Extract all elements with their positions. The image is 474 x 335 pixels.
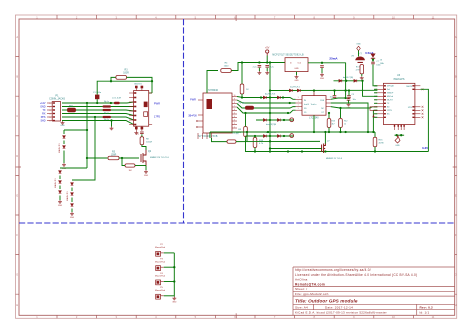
U1 filled block bbox=[144, 102, 148, 108]
wire to U3 pin bbox=[363, 81, 378, 97]
svg-text:10u: 10u bbox=[136, 134, 140, 136]
U3 tied pins bracket bbox=[370, 107, 377, 111]
resistor R18 4.7k bbox=[253, 138, 257, 148]
transistor Q1 MMBF170 bbox=[322, 144, 326, 154]
wire Q1 gate long bbox=[270, 148, 322, 150]
svg-text:10k0: 10k0 bbox=[224, 65, 230, 67]
wire vertical x345 upper bbox=[345, 63, 347, 99]
svg-text:1k: 1k bbox=[344, 123, 346, 125]
svg-text:Out: Out bbox=[297, 62, 301, 65]
svg-text:GND: GND bbox=[294, 80, 299, 82]
svg-text:5D: 5D bbox=[304, 112, 307, 114]
wire R6 right bbox=[135, 165, 146, 167]
svg-text:Q2: Q2 bbox=[148, 151, 152, 153]
wire R8 to Q2 drain bbox=[142, 145, 146, 150]
svg-text:J3: J3 bbox=[380, 60, 383, 62]
wire U4 p2 to rail bbox=[331, 103, 368, 132]
wire R13 dn bbox=[328, 128, 330, 133]
wire chainA link bbox=[64, 129, 87, 131]
junction bbox=[96, 102, 98, 104]
wire chainA low bbox=[63, 151, 65, 164]
svg-text:2.2u: 2.2u bbox=[270, 66, 274, 68]
svg-text:bav99-7L5: bav99-7L5 bbox=[265, 94, 276, 96]
svg-text:P5: P5 bbox=[160, 287, 163, 289]
junction bbox=[344, 89, 346, 91]
junction bbox=[173, 266, 175, 268]
capacitor C1 bbox=[95, 95, 99, 100]
wire row106 left bbox=[62, 106, 103, 108]
svg-text:PWR: PWR bbox=[190, 99, 196, 102]
svg-text:3B-/TX: 3B-/TX bbox=[387, 100, 394, 102]
diode D20 BAV99 bbox=[339, 79, 342, 82]
wire U3 bottom tie bbox=[395, 134, 405, 136]
U2 filled block bbox=[207, 99, 213, 109]
svg-text:R15: R15 bbox=[379, 140, 384, 142]
junction bbox=[289, 102, 291, 104]
IC U4 LTC1540 bbox=[302, 96, 326, 116]
svg-text:100uH: 100uH bbox=[146, 142, 153, 144]
wire chainB low bbox=[59, 196, 61, 201]
svg-text:NC: NC bbox=[321, 108, 324, 110]
svg-text:U3: U3 bbox=[397, 74, 401, 77]
svg-text:Date: 2017-12-14: Date: 2017-12-14 bbox=[325, 305, 353, 309]
wire rail y90 bbox=[270, 89, 377, 91]
svg-text:MCP170LT-3002E/TO92-LB: MCP170LT-3002E/TO92-LB bbox=[272, 54, 304, 56]
svg-text:GND: GND bbox=[294, 68, 299, 70]
wire U3 left stub bbox=[374, 99, 377, 101]
junction bbox=[269, 119, 271, 121]
resistor R5 100R bbox=[108, 156, 119, 160]
ferrite bead FB1 bbox=[67, 108, 76, 112]
wire U3 left stub bbox=[374, 116, 377, 118]
junction bbox=[344, 131, 346, 133]
ground chain A bbox=[62, 163, 66, 166]
svg-text:GND: GND bbox=[70, 217, 75, 219]
svg-text:L4 1.5uH: L4 1.5uH bbox=[112, 98, 121, 100]
junction bbox=[396, 134, 398, 136]
svg-text:GND: GND bbox=[172, 302, 177, 304]
wire flag to PTC bbox=[358, 51, 360, 57]
wire U4 bottom pin to rail bbox=[313, 115, 315, 132]
wire R5 to Q2 gate bbox=[119, 157, 139, 159]
ground mountpads bbox=[172, 297, 176, 300]
junction bbox=[372, 131, 374, 133]
diode D18 BAV99 bbox=[289, 89, 292, 92]
wire row117 left bbox=[62, 116, 103, 118]
wire F1 to U4 bbox=[254, 107, 296, 108]
diode D5 BAV99 bbox=[277, 96, 280, 99]
svg-text:MHCN: MHCN bbox=[406, 86, 412, 88]
svg-text:17P5: 17P5 bbox=[154, 114, 161, 118]
svg-text:1/5B: 1/5B bbox=[320, 100, 325, 102]
mount pad P3 bbox=[156, 266, 161, 271]
wire long rail y132 bbox=[210, 131, 375, 133]
resistor R8 10k0 bbox=[244, 127, 248, 137]
wire row y103 bbox=[237, 100, 296, 103]
ground C13 bbox=[265, 71, 269, 74]
junction bbox=[266, 61, 268, 63]
junction bbox=[321, 62, 323, 64]
svg-text:In: In bbox=[290, 63, 293, 65]
junction bbox=[258, 61, 260, 63]
wire U2 to R4 bbox=[207, 71, 218, 94]
testpoint TP1 bbox=[290, 118, 294, 122]
diode D21 BAV99 bbox=[354, 79, 357, 82]
fuse F2 bar bbox=[358, 62, 363, 63]
wire C1 up to y81 rail bbox=[97, 81, 152, 94]
junction bbox=[313, 131, 315, 133]
winding bar T1a bbox=[103, 105, 112, 107]
junction bbox=[86, 157, 88, 159]
svg-text:GND: GND bbox=[144, 175, 149, 177]
wire C14 dn bbox=[321, 68, 323, 73]
junction bbox=[361, 80, 363, 82]
svg-text:Inst.B: Inst.B bbox=[304, 103, 310, 106]
wire jog up bbox=[246, 132, 248, 142]
wire reg gnd bbox=[296, 72, 298, 75]
svg-text:1/PG: 1/PG bbox=[408, 107, 413, 109]
svg-text:MA4N-7L5: MA4N-7L5 bbox=[66, 190, 69, 200]
junction bbox=[301, 150, 303, 152]
wire U3 left stub bbox=[374, 106, 377, 108]
diode D19 BAV99 bbox=[297, 89, 300, 92]
wire R9 right long bbox=[236, 140, 320, 142]
svg-text:MA4N-7L5: MA4N-7L5 bbox=[54, 177, 57, 187]
junction bbox=[110, 80, 112, 82]
junction bbox=[339, 107, 341, 109]
svg-text:CONN_JACK6: CONN_JACK6 bbox=[49, 98, 65, 101]
svg-text:F1 (A): F1 (A) bbox=[233, 132, 239, 135]
ground Q2 bbox=[144, 170, 148, 173]
wire row110 mid bbox=[76, 109, 103, 111]
svg-text:MountPad: MountPad bbox=[155, 275, 166, 278]
junction bbox=[400, 134, 402, 136]
junction bbox=[328, 131, 330, 133]
svg-text:C?: C? bbox=[376, 61, 378, 63]
svg-text:bav99(?)B: bav99(?)B bbox=[266, 124, 277, 126]
capacitor C16 100n bbox=[371, 62, 375, 64]
junction bbox=[269, 147, 271, 149]
svg-text:4.7k: 4.7k bbox=[259, 143, 264, 145]
svg-text:MountPad: MountPad bbox=[155, 289, 166, 292]
svg-text:1M: 1M bbox=[128, 170, 131, 172]
IC U1 DC-DC module bbox=[134, 91, 149, 127]
svg-text:B: B bbox=[16, 75, 18, 79]
svg-text:R4: R4 bbox=[225, 63, 229, 65]
svg-text:4k7: 4k7 bbox=[332, 123, 335, 125]
ground R11 bbox=[360, 76, 364, 79]
winding bar T1c bbox=[103, 116, 112, 118]
wire U4 out bbox=[331, 98, 346, 99]
junction bbox=[269, 89, 271, 91]
svg-text:SD: SD bbox=[387, 107, 390, 109]
ground chain B bbox=[58, 200, 62, 203]
diode D17 bbox=[277, 135, 280, 138]
capacitor C7 10n bbox=[347, 99, 351, 101]
svg-text:E: E bbox=[16, 193, 18, 197]
transistor Q2 MMBF170 bbox=[141, 150, 146, 166]
wire R4 to regulator +5 rail bbox=[232, 63, 286, 71]
svg-text:Title: Outdoor GPS module: Title: Outdoor GPS module bbox=[295, 298, 358, 303]
svg-text:TX: TX bbox=[387, 103, 390, 105]
IC U5 MCP1700 regulator bbox=[285, 58, 308, 72]
wire C7 dn bbox=[348, 100, 350, 102]
svg-text:4.7M: 4.7M bbox=[356, 70, 361, 72]
capacitor C10 10n bbox=[333, 96, 337, 98]
junction bbox=[246, 131, 248, 133]
blue dashed divider horizontal bbox=[19, 222, 455, 224]
resistor R13 4k7 bbox=[327, 119, 331, 128]
junction bbox=[324, 131, 326, 133]
junction bbox=[313, 89, 315, 91]
ground C14 bbox=[320, 73, 324, 76]
wire P5 to gnd rail bbox=[164, 295, 175, 297]
fuse F1 bbox=[245, 106, 254, 110]
wire stub U1 right1 bbox=[149, 92, 152, 94]
svg-text:25mA: 25mA bbox=[329, 57, 338, 61]
U3 pin mark bbox=[373, 116, 375, 118]
svg-text:GND: GND bbox=[356, 44, 361, 46]
svg-text:3rd: 3rd bbox=[387, 88, 390, 91]
svg-text:P4: P4 bbox=[160, 273, 163, 275]
junction bbox=[173, 280, 175, 282]
svg-text:A: A bbox=[16, 35, 18, 39]
wire row110 to FB1 bbox=[62, 109, 67, 111]
junction bbox=[344, 97, 346, 99]
resistor R7 1K bbox=[240, 84, 244, 94]
diode D16 bbox=[263, 135, 266, 138]
svg-text:G: G bbox=[455, 273, 457, 277]
svg-text:Np Ls: Np Ls bbox=[104, 119, 109, 121]
wire U4 p3 to U3 bbox=[331, 107, 378, 108]
svg-text:bav99-7L5: bav99-7L5 bbox=[290, 87, 301, 89]
junction bbox=[267, 131, 269, 133]
svg-text:Fu 1A: Fu 1A bbox=[239, 102, 245, 105]
svg-text:NC: NC bbox=[387, 114, 390, 116]
wire P3 to gnd rail bbox=[164, 266, 175, 268]
junction bbox=[94, 116, 96, 118]
svg-text:RemoteQTH.com: RemoteQTH.com bbox=[295, 282, 325, 286]
svg-text:R12: R12 bbox=[344, 121, 347, 123]
inductor L4 bbox=[114, 102, 120, 104]
IC U2 SY65040 DC-DC bbox=[203, 93, 232, 133]
resistor R12 1k bbox=[339, 119, 343, 128]
wire row y97 U2 to U4 bbox=[237, 97, 296, 100]
wire vertical x95 to chain C bbox=[72, 117, 95, 180]
svg-text:SY65040 V30B: SY65040 V30B bbox=[198, 136, 217, 138]
wire +5V port down bbox=[266, 56, 268, 63]
wire R7 dn bbox=[241, 94, 243, 98]
svg-text:R8: R8 bbox=[238, 129, 242, 131]
svg-text:1: 1 bbox=[298, 97, 299, 99]
junction bbox=[339, 131, 341, 133]
svg-text:100R: 100R bbox=[123, 73, 129, 75]
diode D14 bbox=[71, 193, 74, 196]
junction bbox=[287, 112, 289, 114]
ground row120 bbox=[110, 127, 114, 130]
svg-text:R13: R13 bbox=[332, 121, 335, 123]
svg-text:KiCad E.D.A. kicad (2017-09-1: KiCad E.D.A. kicad (2017-09-13 revision … bbox=[295, 311, 387, 315]
resistor R3 100R bbox=[116, 76, 127, 80]
power port +5V bbox=[266, 50, 269, 56]
svg-text:G: G bbox=[16, 273, 18, 277]
junction bbox=[269, 61, 271, 63]
P1 inner pin marks bbox=[53, 102, 55, 103]
fuse F2 PTC bbox=[355, 56, 365, 60]
diode D13 bbox=[71, 183, 74, 186]
wire left end bbox=[209, 132, 211, 138]
diode D12 bbox=[59, 191, 62, 194]
wire P4 to gnd rail bbox=[164, 281, 175, 283]
svg-text:3: 3 bbox=[49, 110, 51, 112]
wire Q1 drain bbox=[324, 132, 326, 144]
wire R6 left bbox=[122, 158, 125, 166]
svg-text:Np Ls: Np Ls bbox=[104, 113, 109, 115]
wire U3 left stub bbox=[374, 113, 377, 115]
svg-text:File: gps-Modul2.sch: File: gps-Modul2.sch bbox=[295, 292, 329, 296]
wire to R7 bbox=[241, 63, 243, 85]
junction bbox=[254, 150, 256, 152]
junction bbox=[269, 96, 271, 98]
blue dashed divider vertical bbox=[183, 19, 185, 223]
resistor R4 10k0 bbox=[221, 69, 232, 73]
mount pad P2 bbox=[156, 251, 161, 256]
junction bbox=[282, 96, 284, 98]
capacitor C14 1u bbox=[320, 66, 324, 68]
wire bbox=[59, 186, 61, 190]
junction bbox=[121, 157, 123, 159]
wire U3 left stub bbox=[374, 109, 377, 111]
wire row117 right bbox=[111, 117, 134, 120]
wire L4 to U1 bbox=[120, 102, 134, 103]
svg-text:MMBF170 TL5.5: MMBF170 TL5.5 bbox=[326, 158, 343, 160]
wire row106 right bbox=[111, 106, 134, 108]
svg-text:D: D bbox=[16, 154, 18, 158]
wire U3 left stub bbox=[374, 88, 377, 90]
wire U2 bottom bbox=[212, 138, 228, 142]
capacitor C12 2.2u bbox=[258, 66, 262, 68]
wire bottom rail y151 bbox=[246, 151, 429, 153]
svg-text:4k7B: 4k7B bbox=[379, 143, 385, 145]
svg-text:4: 4 bbox=[49, 114, 51, 116]
ground chain C bbox=[70, 212, 74, 215]
diode D10 bbox=[59, 171, 62, 174]
svg-text:IN: IN bbox=[304, 100, 307, 102]
junction bbox=[86, 129, 88, 131]
svg-text:A: A bbox=[455, 35, 457, 39]
svg-text:P3: P3 bbox=[160, 259, 163, 261]
svg-text:ArtOlina: ArtOlina bbox=[295, 278, 308, 282]
wire bbox=[71, 198, 73, 203]
wire row120 bbox=[62, 121, 134, 125]
resistor R6 1M bbox=[125, 164, 135, 167]
svg-text:R8: R8 bbox=[146, 139, 150, 141]
junction LED bbox=[372, 59, 374, 61]
svg-text:1PPS: 1PPS bbox=[387, 110, 393, 112]
svg-text:2: 2 bbox=[49, 107, 51, 109]
diode D7 bbox=[277, 119, 280, 122]
svg-text:R5: R5 bbox=[112, 152, 116, 154]
wire U3 left stub bbox=[374, 95, 377, 97]
junction bbox=[269, 150, 271, 152]
svg-text:1: 1 bbox=[49, 103, 51, 105]
diode D11 bbox=[59, 181, 62, 184]
svg-text:Sheet: /: Sheet: / bbox=[295, 287, 307, 291]
svg-text:1: 1 bbox=[298, 101, 299, 103]
junction bbox=[333, 89, 335, 91]
svg-text:MountPad: MountPad bbox=[155, 260, 166, 263]
wire to R5 bbox=[87, 157, 108, 159]
svg-text:GND: GND bbox=[58, 205, 63, 207]
wire R3 to U1 right pin bbox=[127, 77, 153, 93]
svg-text:6: 6 bbox=[49, 121, 51, 123]
junction bbox=[241, 61, 243, 63]
junction bbox=[241, 96, 243, 98]
wire row113 bbox=[62, 114, 134, 116]
wire row y80.8 bbox=[334, 80, 363, 82]
svg-text:E: E bbox=[455, 193, 457, 197]
resistor R9 bbox=[227, 140, 236, 143]
junction bbox=[283, 135, 285, 137]
wire bbox=[59, 176, 61, 180]
wire C13 dn bbox=[266, 68, 268, 71]
svg-text:Id: 1/1: Id: 1/1 bbox=[420, 311, 430, 315]
wire R18 dn bbox=[254, 148, 256, 152]
wire row y113 bbox=[237, 107, 296, 113]
LED D3 bbox=[370, 54, 375, 59]
wire P2 to gnd rail bbox=[164, 252, 175, 254]
wire chainA mid bbox=[63, 141, 65, 145]
junction bbox=[86, 102, 88, 104]
svg-text:3B=F3K: 3B=F3K bbox=[188, 115, 197, 118]
wire x373 down bbox=[372, 110, 374, 132]
svg-text:MhPad: MhPad bbox=[387, 96, 393, 98]
junction bbox=[348, 89, 350, 91]
svg-text:10A: 10A bbox=[380, 62, 384, 65]
testpoint TP2 bbox=[290, 134, 294, 138]
svg-text:Size: A4: Size: A4 bbox=[295, 305, 308, 309]
wire row110 right bbox=[111, 110, 134, 111]
wire C7 stub bbox=[348, 97, 350, 100]
wire R18 up bbox=[254, 136, 256, 138]
wire 3.3V vertical bbox=[420, 89, 428, 151]
svg-text:1K: 1K bbox=[246, 89, 249, 91]
wire +5V rail vertical bbox=[269, 63, 271, 152]
svg-text:D: D bbox=[455, 154, 457, 158]
junction bbox=[374, 150, 376, 152]
junction bbox=[151, 80, 153, 82]
capacitor C13 2.2u bbox=[265, 66, 269, 68]
resistor R8 100uH bbox=[140, 137, 144, 145]
svg-text:K7: K7 bbox=[322, 112, 324, 114]
junction bbox=[283, 119, 285, 121]
junction bbox=[110, 102, 112, 104]
wire U3 left stub bbox=[374, 85, 377, 87]
svg-text:MountPad: MountPad bbox=[155, 246, 166, 249]
svg-text:B: B bbox=[455, 75, 457, 79]
wire R12 up bbox=[340, 108, 342, 118]
svg-text:C: C bbox=[16, 114, 18, 118]
svg-text:C: C bbox=[455, 114, 457, 118]
resistor R11 4.7M bbox=[360, 65, 364, 74]
junction bbox=[269, 112, 271, 114]
svg-text:10n: 10n bbox=[353, 99, 356, 101]
svg-text:PAM-GPS: PAM-GPS bbox=[394, 78, 405, 81]
wire x373 to pin bbox=[373, 109, 377, 111]
wire C12 dn bbox=[258, 68, 260, 71]
mount pad P5 bbox=[156, 294, 161, 299]
svg-text:Q7: Q7 bbox=[327, 141, 330, 143]
